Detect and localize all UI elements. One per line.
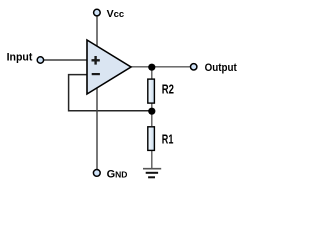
wire R2 bottom to node: [151, 103, 153, 112]
wire output node to R2 top: [151, 67, 153, 80]
wire op-amp bottom to GND terminal: [96, 88, 98, 170]
resistor R1: [148, 127, 155, 151]
wire R1 bottom to ground: [151, 150, 153, 169]
wire Input to op-amp +: [44, 59, 88, 61]
terminal Output: [191, 64, 197, 70]
resistor R2: [148, 79, 155, 103]
svg-text:R1: R1: [162, 132, 174, 146]
svg-text:Output: Output: [205, 62, 237, 74]
svg-text:Input: Input: [7, 51, 33, 63]
svg-text:GND: GND: [107, 168, 128, 180]
terminal Input: [37, 57, 43, 63]
terminal GND: [93, 170, 100, 177]
terminal Vcc: [94, 9, 101, 16]
wire Vcc to op-amp top: [96, 16, 98, 47]
wire op-amp output to Output terminal: [131, 66, 191, 68]
op-amp + input symbol: [92, 56, 100, 65]
svg-text:R2: R2: [162, 83, 174, 97]
op-amp U1: [87, 40, 131, 94]
svg-text:Vcc: Vcc: [107, 8, 125, 20]
wire node to R1 top: [151, 111, 153, 126]
op-amp - input symbol: [92, 73, 100, 75]
node junction between R2 and R1: [148, 108, 155, 115]
ground: [143, 169, 161, 178]
node junction at output: [148, 64, 155, 71]
wire feedback from - input to node between R2 and R1: [69, 75, 152, 111]
